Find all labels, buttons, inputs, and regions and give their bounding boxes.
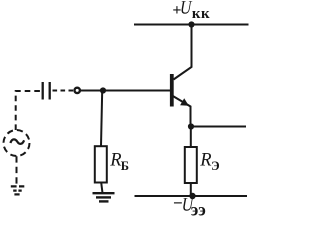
wire: dashed capacitor to input terminal	[53, 90, 74, 92]
wire: dashed source to ground	[16, 156, 18, 186]
wire: RB to ground	[101, 183, 102, 194]
svg-text:R: R	[199, 151, 211, 171]
wire: base wire	[81, 90, 171, 92]
node: emitter junction	[188, 123, 194, 129]
AC source sine symbol	[10, 139, 24, 143]
AC source G circle	[4, 130, 30, 156]
label -Uee	[173, 193, 206, 220]
transistor VT1 emitter with arrow	[172, 96, 191, 127]
svg-text:кк: кк	[192, 6, 210, 22]
ground under source (dashed)	[11, 186, 24, 194]
capacitor C plate 2	[49, 82, 51, 100]
wire: output	[191, 126, 246, 128]
label RB	[109, 150, 129, 172]
svg-text:R: R	[109, 150, 121, 170]
transistor VT1 base bar	[170, 74, 174, 107]
node: collector junction on top rail	[188, 21, 194, 27]
capacitor C plate 1	[42, 82, 44, 100]
bottom rail -Uee	[135, 195, 248, 197]
wire: collector lead	[174, 25, 192, 80]
svg-text:Э: Э	[211, 159, 219, 173]
node: junction on bottom rail	[189, 193, 195, 199]
svg-text:ээ: ээ	[191, 200, 206, 220]
top rail +Ukk	[134, 24, 249, 26]
wire: RE to bottom rail	[190, 183, 192, 196]
label +Ukk	[172, 0, 210, 22]
node: input terminal (open circle)	[75, 88, 80, 93]
label RE	[199, 151, 219, 173]
wire: dashed from source to capacitor	[16, 91, 42, 130]
wire: down to RB	[101, 91, 102, 147]
node: base junction	[100, 87, 106, 93]
ground under RB	[93, 193, 115, 201]
wire: emitter to RE	[190, 127, 192, 148]
resistor RE body	[185, 147, 197, 183]
resistor RB body	[95, 146, 107, 182]
svg-text:Б: Б	[121, 159, 129, 173]
